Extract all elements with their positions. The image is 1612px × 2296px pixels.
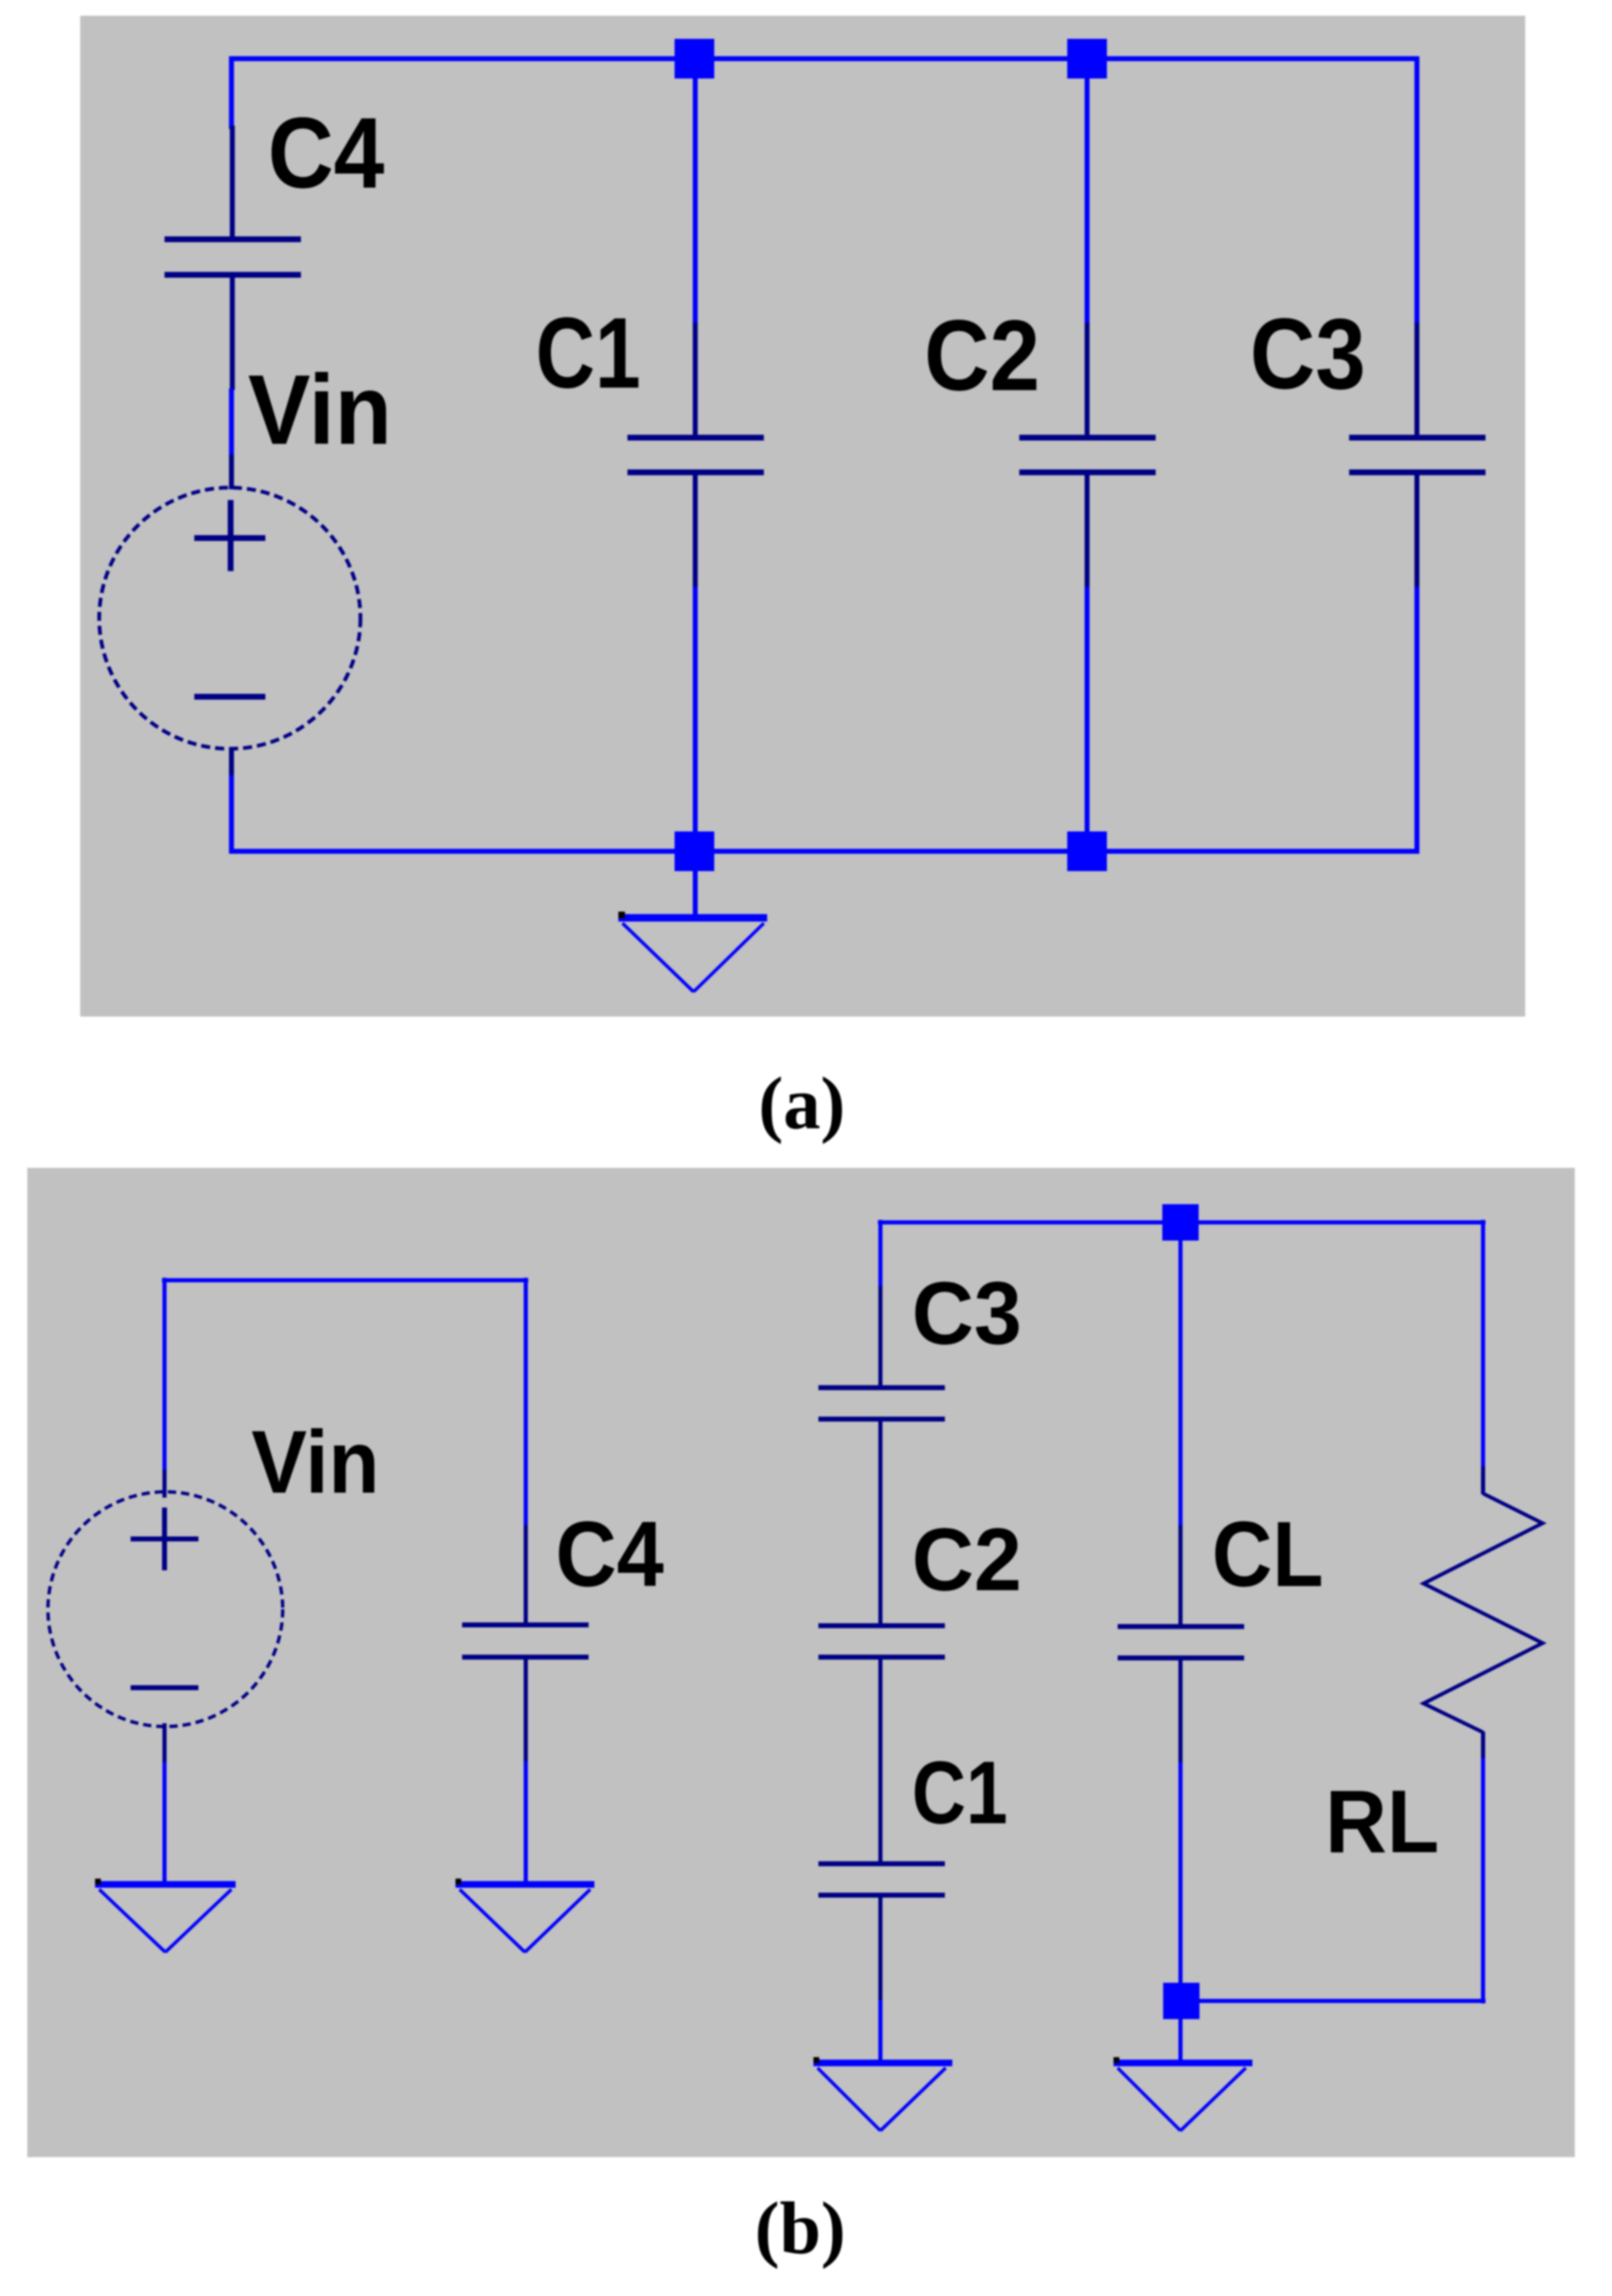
wire bottom horizontal <box>229 849 1419 854</box>
voltage source Vin (b) <box>48 1470 283 1764</box>
svg-text:Vin: Vin <box>248 355 392 465</box>
wire left vertical upper <box>229 56 234 129</box>
voltage source Vin (a) <box>99 455 360 777</box>
wire top horizontal left circuit <box>162 1279 528 1283</box>
capacitor CL <box>1118 1525 1244 1764</box>
svg-text:C3: C3 <box>912 1263 1022 1363</box>
ground CL <box>1114 2057 1252 2131</box>
svg-text:C3: C3 <box>1250 298 1366 410</box>
wire C1 branch upper <box>693 59 698 324</box>
node junction top-1 <box>675 39 714 79</box>
wire between C4 and Vin <box>229 388 234 457</box>
wire C4 vertical upper <box>524 1278 528 1527</box>
svg-text:C1: C1 <box>536 297 641 409</box>
wire RL vertical lower <box>1481 1758 1486 2003</box>
wire C2 branch lower <box>1085 587 1090 851</box>
wire CL ground stub <box>1179 2019 1183 2061</box>
svg-text:C2: C2 <box>924 299 1040 412</box>
ground C4 (b) <box>455 1879 594 1952</box>
capacitor C3 (b) <box>818 1286 945 1526</box>
capacitor C2 (b) <box>818 1524 945 1764</box>
svg-text:CL: CL <box>1212 1503 1323 1606</box>
capacitor C2 <box>1019 322 1156 588</box>
wire C2 branch upper <box>1085 59 1090 324</box>
wire stack top <box>879 1220 883 1288</box>
wire CL vertical lower <box>1179 1762 1183 2003</box>
capacitor C1 <box>627 322 764 588</box>
wire right vertical lower <box>1414 587 1419 854</box>
node junction bottom (b) <box>1163 1983 1199 2019</box>
svg-text:(b): (b) <box>755 2188 846 2270</box>
panel (a) background <box>80 16 1525 1017</box>
resistor RL <box>1424 1466 1543 1760</box>
wire bottom horizontal right circuit <box>1180 1999 1486 2003</box>
svg-text:C1: C1 <box>912 1742 1008 1842</box>
ground Vin (b) <box>95 1879 236 1952</box>
wire CL vertical upper <box>1179 1222 1183 1527</box>
wire RL vertical upper <box>1481 1220 1486 1468</box>
svg-text:C4: C4 <box>268 97 384 209</box>
wire right vertical upper <box>1414 56 1419 324</box>
capacitor C1 (b) <box>818 1762 945 2002</box>
node junction top-2 <box>1067 39 1107 79</box>
ground C1 stack (b) <box>813 2057 952 2131</box>
wire left vertical (Vin top) <box>163 1278 167 1471</box>
wire below C1 (b) <box>879 2000 883 2061</box>
node junction bottom-1 <box>675 831 714 871</box>
wire C1 branch lower <box>693 587 698 851</box>
svg-text:C2: C2 <box>912 1509 1022 1609</box>
svg-text:(a): (a) <box>759 1063 846 1145</box>
panel (b) background <box>27 1168 1575 2157</box>
wire below C4 (b) <box>524 1761 528 1883</box>
capacitor C3 <box>1349 322 1486 588</box>
svg-text:Vin: Vin <box>251 1412 379 1512</box>
capacitor C4 (b) <box>462 1525 589 1763</box>
wire below Vin <box>229 775 234 854</box>
ground (a) <box>618 871 767 992</box>
node junction top (b) <box>1162 1204 1199 1241</box>
wire top horizontal <box>229 56 1419 61</box>
svg-text:C4: C4 <box>556 1503 664 1606</box>
node junction bottom-2 <box>1067 831 1107 871</box>
wire below Vin (b) <box>163 1762 167 1883</box>
capacitor C4 <box>165 126 301 390</box>
svg-text:RL: RL <box>1325 1771 1439 1871</box>
wire top horizontal right circuit <box>878 1221 1486 1225</box>
